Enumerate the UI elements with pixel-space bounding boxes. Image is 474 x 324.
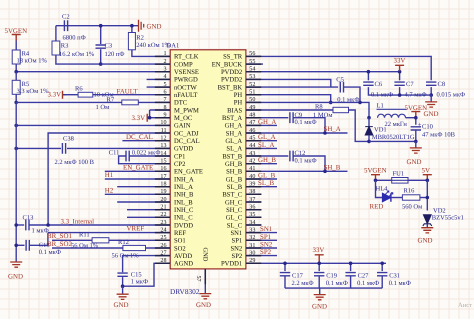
svg-text:CP2: CP2	[174, 161, 185, 168]
ground C8	[425, 95, 437, 107]
svg-text:DC_CAL: DC_CAL	[126, 134, 153, 141]
svg-text:0.1 мкФ: 0.1 мкФ	[357, 280, 379, 287]
wire LED to R16	[391, 197, 403, 199]
value C10 47uF 10V	[422, 132, 456, 139]
value R8 1 MOhm	[313, 112, 332, 119]
svg-text:SH_C: SH_C	[226, 207, 243, 214]
label C38	[63, 136, 74, 143]
label net SN1	[260, 226, 273, 233]
label GND VD2	[418, 237, 433, 244]
svg-text:1 Ом: 1 Ом	[96, 104, 110, 111]
svg-text:C7: C7	[406, 81, 414, 88]
value R7 1 Ohm	[96, 104, 110, 111]
svg-text:RT_CLK: RT_CLK	[174, 54, 199, 61]
wire FU1 to 5V	[408, 179, 427, 181]
capacitor C31	[377, 263, 387, 288]
capacitor C9	[290, 112, 325, 133]
svg-text:18 кОм 1%: 18 кОм 1%	[17, 58, 48, 65]
wire stub pin 34	[246, 224, 262, 226]
label RED	[370, 204, 384, 211]
node 5VGEN tap FU1	[374, 179, 378, 183]
svg-text:R3: R3	[61, 43, 69, 50]
wire INL_C stub pin 22	[127, 216, 170, 218]
wire R12 to IC pin 26	[146, 247, 171, 249]
wire SN2 stub	[246, 247, 277, 249]
wire BIAS pin 49	[246, 109, 333, 111]
svg-text:33V: 33V	[313, 247, 325, 254]
resistor R11	[92, 238, 109, 243]
label C27	[358, 272, 370, 279]
wire SL_A stub	[246, 147, 277, 149]
node R5 bottom	[14, 101, 18, 105]
svg-text:3.3V: 3.3V	[48, 92, 62, 99]
fuse FU1	[392, 178, 408, 184]
wire SL_B stub	[246, 186, 277, 188]
svg-text:DTC: DTC	[174, 100, 188, 107]
wire INH_C stub pin 21	[127, 209, 170, 211]
label net SP1	[260, 234, 272, 241]
wire LED branch	[376, 180, 383, 197]
node 5VGEN tap	[414, 116, 418, 120]
wire 5V down to VD2	[426, 180, 428, 210]
wire COMP top node	[56, 25, 139, 27]
resistor R2	[128, 26, 170, 57]
node DVDD rail join	[46, 223, 50, 227]
node 5V tap	[426, 179, 430, 183]
svg-text:VREF: VREF	[127, 225, 145, 232]
label C9	[295, 112, 303, 119]
label net GL_B	[258, 173, 276, 180]
value C31	[389, 280, 411, 287]
wire VSENSE pin3	[16, 71, 170, 73]
label net SH_A	[324, 126, 341, 133]
wire R16 to 5V rail	[420, 197, 427, 199]
label net EN_GATE	[123, 164, 153, 171]
node C18 left	[14, 244, 18, 248]
node M_PWM/M_OC tie	[148, 116, 152, 120]
svg-text:C12: C12	[295, 150, 306, 157]
svg-text:DRV8302: DRV8302	[170, 287, 200, 296]
resistor R8	[333, 107, 349, 112]
wire GH_B stub	[246, 163, 277, 165]
svg-text:BST_C: BST_C	[222, 192, 242, 199]
svg-text:C3: C3	[105, 43, 113, 50]
value R16 560 Ohm	[402, 204, 422, 211]
node C5 to PH	[358, 101, 362, 105]
svg-text:120 пФ: 120 пФ	[105, 51, 125, 58]
svg-text:R8: R8	[315, 103, 323, 110]
label GND C10	[407, 159, 422, 166]
diode VD1	[365, 116, 373, 142]
svg-text:3.3 кОм 1%: 3.3 кОм 1%	[17, 88, 50, 95]
svg-text:0.1 мкФ: 0.1 мкФ	[39, 249, 61, 256]
svg-text:MBR0520LT1G: MBR0520LT1G	[372, 134, 415, 141]
svg-text:BIAS: BIAS	[227, 107, 242, 114]
svg-text:AVDD: AVDD	[174, 253, 192, 260]
label HL4	[376, 185, 389, 192]
svg-text:5VGEN: 5VGEN	[364, 167, 387, 174]
value C27	[357, 280, 379, 287]
wire BST_BK pin 52	[246, 86, 338, 88]
svg-text:GND: GND	[407, 159, 422, 166]
value C11 0.022uF	[132, 150, 161, 157]
wire INH_A pin 17	[105, 178, 170, 180]
wire stub pin 36	[246, 209, 262, 211]
power port 5VGEN at L1	[411, 112, 420, 118]
wire stub pin 38	[246, 193, 262, 195]
svg-text:GVDD: GVDD	[174, 146, 193, 153]
wire INL_A stub pin 18	[117, 186, 170, 188]
svg-text:SS_TR: SS_TR	[223, 54, 243, 61]
label FU1	[393, 170, 405, 177]
svg-text:PH: PH	[234, 100, 243, 107]
capacitor C19	[314, 263, 324, 288]
resistor R16	[402, 195, 420, 200]
svg-text:C15: C15	[131, 271, 142, 278]
svg-text:SL_B: SL_B	[227, 184, 243, 191]
svg-text:33V: 33V	[394, 58, 406, 65]
capacitor C3	[96, 26, 106, 64]
IC pin leads	[155, 56, 261, 284]
label net GL_A	[258, 134, 276, 141]
label 33V bottom	[313, 247, 325, 254]
wire SN1 stub	[246, 232, 277, 234]
resistor R4	[12, 41, 20, 72]
svg-text:22 мкГн: 22 мкГн	[385, 121, 408, 128]
svg-text:M_PWM: M_PWM	[174, 107, 199, 114]
wire PH pin 51	[246, 95, 331, 103]
wire GL_A stub	[246, 140, 277, 142]
svg-text:16.2 кОм 1%: 16.2 кОм 1%	[59, 51, 95, 58]
svg-text:SO2: SO2	[174, 245, 186, 252]
svg-text:BST_B: BST_B	[222, 153, 242, 160]
label C7	[406, 81, 414, 88]
label VD2	[433, 207, 446, 214]
svg-text:SP2: SP2	[260, 249, 272, 256]
label C11	[109, 150, 120, 157]
ground C15	[117, 286, 129, 299]
svg-text:M_OC: M_OC	[174, 115, 193, 122]
svg-text:3.3_Internal: 3.3_Internal	[61, 218, 95, 225]
svg-text:3.3V: 3.3V	[132, 115, 146, 122]
svg-text:nOCTW: nOCTW	[174, 84, 197, 91]
node C38 left on rail	[14, 147, 18, 151]
capacitor C11	[119, 151, 171, 164]
part number DRV8302	[170, 287, 200, 296]
wire R11 to IC pin 25	[109, 239, 170, 241]
svg-text:0.1 мкФ: 0.1 мкФ	[326, 280, 348, 287]
power port 5VGEN top-left	[12, 35, 21, 41]
label C15	[131, 271, 142, 278]
wire 5VGEN to FU1	[376, 179, 392, 181]
label R4	[22, 51, 30, 58]
svg-text:C17: C17	[292, 272, 304, 279]
value C6 0.1uF	[371, 92, 393, 99]
svg-text:C6: C6	[375, 81, 383, 88]
resistor R5	[12, 72, 20, 103]
svg-text:2.2 мкФ 100 В: 2.2 мкФ 100 В	[55, 159, 95, 166]
resistor R3	[52, 26, 101, 64]
svg-text:INH_B: INH_B	[174, 192, 194, 199]
svg-text:C2: C2	[62, 14, 70, 21]
value R4 18 kOhm	[17, 58, 48, 65]
svg-text:240 кОм 1%: 240 кОм 1%	[136, 42, 170, 49]
wire stub pin 37	[246, 201, 262, 203]
wire DC_CAL pin 12	[122, 140, 170, 142]
label C8	[438, 81, 446, 88]
svg-text:SH_B: SH_B	[324, 164, 341, 171]
svg-text:R2: R2	[136, 35, 144, 42]
designator DA1	[167, 43, 180, 50]
label R2	[136, 35, 144, 42]
wire SH_A pin 46	[246, 132, 348, 134]
wire nOCTW stub pin 5	[147, 86, 171, 88]
label net VREF	[127, 225, 145, 232]
label R6	[75, 85, 83, 92]
capacitor C38	[62, 143, 170, 154]
node C7 bottom	[398, 93, 402, 97]
svg-text:SP1: SP1	[232, 238, 243, 245]
resistor R12	[123, 245, 146, 250]
ground VD2	[421, 228, 433, 233]
value C3 120 pF	[105, 51, 125, 58]
svg-text:SN2: SN2	[230, 245, 242, 252]
label R7	[107, 96, 115, 103]
power port 3.3V at R6	[63, 91, 67, 99]
svg-text:0.015 мкФ: 0.015 мкФ	[437, 92, 466, 99]
label R12	[118, 239, 129, 246]
label L1	[377, 102, 384, 109]
label 33V top	[394, 58, 406, 65]
wire SS_TR pin 56 to C8	[246, 56, 431, 80]
wire SH_B pin 41	[246, 170, 348, 172]
svg-text:BZV55c5v1: BZV55c5v1	[432, 215, 464, 222]
wire OC_ADJ pin 11 to DVDD rail	[48, 133, 170, 225]
svg-text:COMP: COMP	[174, 61, 193, 68]
value C13 1uF	[32, 227, 49, 234]
label net SN2	[260, 242, 273, 249]
watermark	[458, 302, 472, 309]
label net H2	[105, 187, 114, 194]
wire BST_B to C12	[246, 155, 288, 157]
resistor R7	[122, 100, 139, 105]
svg-text:INL_C: INL_C	[174, 215, 193, 222]
svg-text:DC_CAL: DC_CAL	[174, 138, 200, 145]
label C18	[39, 242, 50, 249]
label C31	[389, 272, 400, 279]
power port 5VGEN at FU1	[371, 175, 380, 181]
svg-text:C9: C9	[295, 112, 303, 119]
label 5VGEN at L1	[405, 105, 428, 112]
node C9 to SH_A	[323, 131, 327, 135]
value R3 16.2 kOhm	[59, 51, 95, 58]
wire M_OC pin 9	[148, 117, 171, 119]
value C7 4.7uF	[405, 92, 427, 99]
node C7 top 33V	[398, 70, 402, 74]
wire BST_A to C9	[246, 117, 288, 119]
inductor L1	[377, 109, 407, 117]
label net SH_B	[324, 164, 341, 171]
svg-text:SN1: SN1	[260, 226, 273, 233]
IC pin names and numbers	[160, 50, 255, 281]
value C2 6800 pF	[63, 35, 86, 42]
svg-text:REF: REF	[174, 230, 186, 237]
ground left rail	[10, 262, 22, 267]
svg-text:AGND: AGND	[174, 261, 193, 268]
svg-text:GND: GND	[418, 237, 433, 244]
label 5VGEN at FU1	[364, 167, 387, 174]
label 3.3V at R6	[48, 92, 62, 99]
label net FAULT	[117, 88, 139, 95]
svg-text:C19: C19	[326, 272, 337, 279]
svg-text:0.1 мкФ: 0.1 мкФ	[295, 158, 317, 165]
power port 33V top	[395, 65, 404, 71]
svg-text:BR_SO2: BR_SO2	[47, 241, 72, 248]
capacitor C10 polarized	[411, 121, 422, 141]
svg-text:L1: L1	[377, 102, 384, 109]
svg-text:5VGEN: 5VGEN	[5, 28, 28, 35]
svg-text:4.7 мкФ: 4.7 мкФ	[405, 92, 427, 99]
value R5 3.3 kOhm	[17, 88, 50, 95]
svg-text:5V: 5V	[422, 167, 430, 174]
wire L1 to C10	[406, 118, 416, 125]
node R4-R5 junction	[14, 70, 18, 74]
svg-text:H2: H2	[105, 187, 114, 194]
value C5 0.1uF	[337, 97, 359, 104]
svg-text:SL_A: SL_A	[226, 146, 242, 153]
svg-text:C8: C8	[438, 81, 446, 88]
value R2 240 kOhm	[136, 42, 170, 49]
svg-text:0.1 мкФ: 0.1 мкФ	[295, 119, 317, 126]
label net H1	[105, 172, 114, 179]
label net DC_CAL	[126, 134, 153, 141]
wire GAIN to gnd rail pin 10	[14, 124, 170, 128]
svg-text:1 мкФ: 1 мкФ	[131, 279, 148, 286]
svg-text:C11: C11	[109, 150, 120, 157]
label 3.3V at M_OC	[132, 115, 146, 122]
wire SP1 stub	[246, 239, 277, 241]
svg-text:HL4: HL4	[376, 185, 389, 192]
value R12 56 Ohm	[112, 253, 140, 260]
label GND C8	[424, 111, 439, 118]
label net SP2	[260, 249, 272, 256]
svg-text:INL_B: INL_B	[174, 199, 193, 206]
node C15 bottom	[121, 284, 125, 288]
label 5VGEN top-left	[5, 28, 28, 35]
svg-text:SH_A: SH_A	[226, 130, 243, 137]
svg-text:nFAULT: nFAULT	[174, 92, 197, 99]
value C19	[326, 280, 348, 287]
label C6	[375, 81, 383, 88]
label GND left rail	[8, 274, 23, 281]
svg-text:GND: GND	[196, 302, 211, 309]
wire stub pin 35	[246, 216, 262, 218]
label R5	[22, 81, 30, 88]
ground pin 57	[199, 294, 211, 299]
capacitor C15	[117, 273, 127, 286]
capacitor C5	[340, 82, 360, 103]
label net SL_B	[258, 180, 274, 187]
wire AVDD pin 27	[123, 256, 171, 273]
svg-text:VSENSE: VSENSE	[174, 69, 199, 76]
capacitor C12	[290, 151, 325, 172]
svg-text:SN2: SN2	[260, 242, 273, 249]
label R11	[79, 231, 90, 238]
svg-text:C10: C10	[422, 124, 433, 131]
capacitor C27	[345, 263, 355, 288]
value C8 0.015uF	[437, 92, 466, 99]
node C17 top	[283, 262, 287, 266]
node VD1 anode gnd rail	[367, 140, 371, 144]
value C38 2.2uF 100V	[55, 159, 95, 166]
value VD1 MBR0520LT1G	[372, 134, 415, 141]
capacitor C7	[394, 72, 404, 95]
svg-text:GH_A: GH_A	[225, 123, 243, 130]
wire INL_B stub pin 20	[117, 201, 170, 203]
svg-text:GH_B: GH_B	[225, 161, 243, 168]
capacitor C17	[280, 263, 290, 288]
svg-text:GAIN: GAIN	[174, 123, 191, 130]
value C12 0.1uF	[295, 158, 317, 165]
svg-text:GND: GND	[8, 274, 23, 281]
svg-text:57: 57	[195, 276, 201, 282]
power port 33V bottom	[315, 255, 324, 263]
wire PH pin 50	[246, 102, 369, 117]
svg-text:560 Ом: 560 Ом	[402, 204, 422, 211]
svg-text:GH_C: GH_C	[225, 199, 243, 206]
wire GH_A stub	[246, 124, 277, 126]
svg-text:SP1: SP1	[260, 234, 272, 241]
wire GL_B stub	[246, 178, 277, 180]
label net 3.3_Internal	[61, 218, 95, 225]
label net SL_A	[258, 142, 274, 149]
label C13	[23, 214, 34, 221]
svg-text:FAULT: FAULT	[117, 88, 139, 95]
node C3 bottom	[99, 62, 103, 66]
wire left ground rail	[15, 102, 17, 262]
svg-text:47 мкФ 10В: 47 мкФ 10В	[422, 132, 456, 139]
value C15 1uF	[131, 279, 148, 286]
IC DA1 DRV8302 body	[170, 50, 246, 269]
label GND top	[147, 24, 162, 31]
label net BR_SO1	[47, 233, 72, 240]
label C17	[292, 272, 304, 279]
svg-text:R11: R11	[79, 231, 90, 238]
capacitor C8	[426, 82, 436, 95]
wire cap bank ground rail	[285, 287, 382, 289]
label 5V	[422, 167, 430, 174]
svg-text:PH: PH	[234, 92, 243, 99]
svg-text:SL_C: SL_C	[227, 222, 243, 229]
svg-text:PVDD1: PVDD1	[221, 261, 242, 268]
svg-text:EN_BUCK: EN_BUCK	[212, 61, 243, 68]
label R3	[61, 43, 69, 50]
svg-text:5VGEN: 5VGEN	[405, 105, 428, 112]
node C10 bottom	[414, 140, 418, 144]
wire VD1/C10 ground rail	[369, 140, 416, 142]
value R6 10 kOhm	[94, 92, 114, 99]
svg-text:2.2 мкФ: 2.2 мкФ	[292, 280, 314, 287]
svg-text:DVDD: DVDD	[174, 222, 193, 229]
capacitor C18	[16, 233, 48, 251]
label C2	[62, 14, 70, 21]
wire SO1 to R11	[52, 239, 92, 241]
node C12 to SH_B	[323, 170, 327, 174]
wire PVDD2 pin 54	[246, 71, 400, 73]
label C10	[422, 124, 433, 131]
ground top (COMP network)	[139, 20, 144, 32]
svg-text:INL_A: INL_A	[174, 184, 193, 191]
